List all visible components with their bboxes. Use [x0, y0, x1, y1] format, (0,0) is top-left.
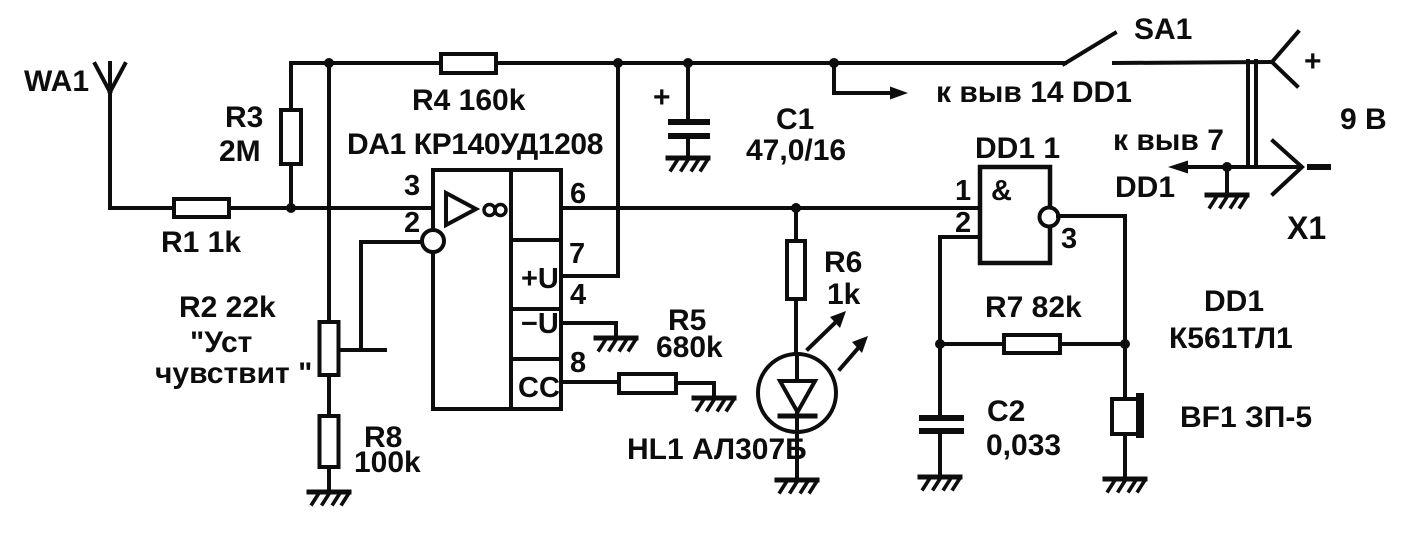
resistor R4 [441, 54, 496, 73]
svg-text:R1 1k: R1 1k [161, 226, 241, 259]
svg-text:&: & [991, 175, 1012, 207]
wire pin3 to BF1 [1058, 216, 1125, 399]
svg-text:8: 8 [570, 347, 586, 379]
svg-text:DD1: DD1 [1115, 171, 1175, 204]
wire R2 to R8 [327, 375, 331, 416]
svg-text:+U: +U [521, 263, 559, 295]
logic gate DD1.1 box [980, 167, 1050, 263]
LED HL1 circle [758, 354, 836, 432]
wire pin2 DD1 [940, 237, 980, 415]
wire pin7 to rail [561, 63, 618, 276]
op-amp DA1 body [433, 170, 561, 409]
wire C1 to ground [686, 139, 690, 158]
capacitor C1 wire top [686, 63, 690, 119]
svg-text:R4 160k: R4 160k [412, 84, 526, 117]
wire R5 to ground [676, 383, 714, 397]
op-amp infinity symbol [484, 205, 506, 216]
svg-text:BF1 ЗП-5: BF1 ЗП-5 [1180, 401, 1312, 434]
svg-text:3: 3 [1061, 223, 1077, 255]
svg-text:100k: 100k [354, 446, 421, 479]
wire minus line [1183, 165, 1297, 169]
arrowhead right [890, 87, 908, 100]
svg-text:C2: C2 [987, 395, 1025, 428]
svg-text:R6: R6 [824, 246, 862, 279]
resistor R1 [174, 199, 229, 217]
ground HL1 [777, 480, 817, 492]
wire X1 ground stem [1225, 167, 1229, 194]
svg-text:DA1 КР140УД1208: DA1 КР140УД1208 [347, 128, 603, 161]
potentiometer R2 [320, 322, 339, 375]
inversion circle pin3 DD1 [1040, 208, 1059, 227]
arrowhead left [1168, 161, 1188, 174]
inversion circle pin2 [422, 230, 444, 252]
ground R5 [694, 398, 734, 410]
ground pin4 [596, 338, 636, 350]
label minus [1310, 164, 1328, 170]
svg-text:+: + [1304, 45, 1322, 78]
resistor R5 [619, 374, 676, 393]
svg-text:DD1 1: DD1 1 [975, 132, 1060, 165]
buzzer BF1 [1112, 393, 1144, 438]
svg-text:6: 6 [570, 178, 586, 210]
svg-text:HL1 АЛ307Б: HL1 АЛ307Б [627, 433, 807, 466]
resistor R6 [787, 241, 805, 299]
capacitor C1 [668, 119, 710, 139]
svg-text:1k: 1k [827, 278, 861, 311]
LED cathode bar [780, 414, 815, 419]
svg-text:7: 7 [569, 238, 585, 270]
resistor R3 [281, 110, 301, 164]
capacitor C2 [919, 415, 964, 434]
svg-text:2: 2 [955, 207, 971, 239]
svg-text:−U: −U [521, 308, 559, 340]
svg-text:3: 3 [404, 170, 420, 202]
ground R8 [309, 492, 349, 504]
node R7 right [1120, 339, 1130, 349]
wire through LED [794, 299, 798, 354]
svg-text:C1: C1 [776, 103, 814, 136]
op-amp triangle [446, 193, 476, 225]
ground C2 [920, 477, 960, 489]
wire R3 bottom [289, 164, 293, 208]
wire wiper to pin2 [361, 242, 422, 350]
wire R1 to op-amp pin3 [229, 206, 433, 210]
resistor R8 [320, 416, 339, 467]
svg-text:+: + [653, 81, 671, 114]
wire R7 left [940, 342, 1004, 346]
wire pin8 to R5 [561, 380, 619, 384]
wire antenna to R1 [110, 206, 174, 210]
svg-text:WA1: WA1 [24, 65, 89, 98]
svg-text:"Уст: "Уст [190, 326, 252, 359]
wire to R6 [794, 208, 798, 241]
wire R8 to ground [327, 467, 331, 492]
svg-text:X1: X1 [1287, 210, 1326, 246]
node R3-bottom [286, 203, 296, 213]
wire pin4 to ground [561, 323, 616, 338]
svg-text:R2 22k: R2 22k [179, 291, 276, 324]
connector X1 minus contact [1273, 141, 1302, 194]
LED triangle [780, 381, 815, 412]
resistor R7 [1004, 335, 1060, 353]
node rail pin7 [613, 58, 623, 68]
node R6 top [791, 203, 801, 213]
wire op-amp output to DD1 pin1 [561, 206, 980, 210]
node rail arrow [829, 58, 839, 68]
wire top rail mid segment [496, 61, 1065, 65]
svg-text:R7 82k: R7 82k [985, 291, 1082, 324]
svg-text:47,0/16: 47,0/16 [746, 134, 846, 167]
node R7 left [935, 339, 945, 349]
wire arrow to DD1 pin14 [834, 63, 893, 93]
svg-text:чувствит ": чувствит " [155, 357, 312, 390]
svg-text:DD1: DD1 [1204, 285, 1264, 318]
wire rail right segment [1114, 62, 1272, 63]
svg-text:R3: R3 [225, 101, 263, 134]
node X1 ground [1222, 162, 1232, 172]
LED arrow 1 [808, 311, 846, 349]
svg-text:4: 4 [570, 279, 586, 311]
wire BF1 to ground [1123, 434, 1127, 479]
svg-text:SA1: SA1 [1134, 13, 1192, 46]
svg-text:680k: 680k [656, 331, 723, 364]
svg-text:2M: 2M [219, 135, 261, 168]
wire C2 to ground [938, 434, 942, 477]
antenna WA1 [95, 63, 125, 208]
switch SA1 lever [1064, 33, 1115, 64]
svg-text:к выв 7: к выв 7 [1113, 124, 1224, 157]
node rail C1 [683, 58, 693, 68]
svg-text:CC: CC [518, 372, 560, 404]
connector X1 plus contact [1272, 32, 1298, 86]
wiper of R2 [339, 348, 385, 352]
wire top rail left segment [291, 63, 441, 110]
svg-text:0,033: 0,033 [986, 429, 1061, 462]
svg-text:К561ТЛ1: К561ТЛ1 [1169, 322, 1293, 355]
svg-text:1: 1 [955, 175, 971, 207]
svg-text:9 В: 9 В [1340, 103, 1387, 136]
svg-text:2: 2 [404, 207, 420, 239]
ground C1 [668, 158, 708, 170]
wire rail to R2 top [327, 63, 331, 322]
svg-text:к выв 14 DD1: к выв 14 DD1 [936, 76, 1132, 109]
wire R7 right [1060, 342, 1125, 346]
node rail-R2 [324, 58, 334, 68]
connector X1 body double line [1248, 61, 1256, 167]
ground BF1 [1105, 479, 1145, 491]
LED arrow 2 [840, 336, 868, 369]
ground X1 [1207, 195, 1247, 207]
